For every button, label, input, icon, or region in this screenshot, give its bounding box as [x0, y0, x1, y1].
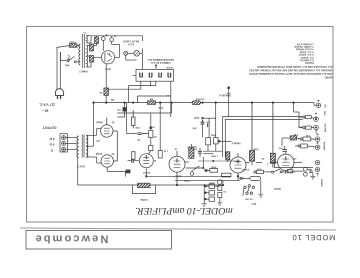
svg-text:PILOT LIGHT: PILOT LIGHT — [123, 39, 140, 42]
svg-text:20MF: 20MF — [208, 182, 214, 185]
svg-text:T-2 OUT.TRANS: T-2 OUT.TRANS — [296, 48, 314, 51]
svg-text:AC: AC — [324, 104, 327, 108]
svg-text:+250 V: +250 V — [219, 94, 228, 97]
svg-text:L-CHOKE 8 HY.: L-CHOKE 8 HY. — [296, 42, 314, 45]
svg-text:HEATER WIRING ALL: HEATER WIRING ALL — [147, 58, 174, 61]
svg-text:10W: 10W — [158, 106, 164, 109]
svg-text:OUT.T: OUT.T — [77, 164, 85, 167]
svg-text:FUSE: FUSE — [140, 198, 147, 201]
svg-text:.005: .005 — [278, 147, 283, 150]
svg-text:12AX7: 12AX7 — [174, 175, 182, 178]
svg-text:12AX7: 12AX7 — [241, 168, 249, 171]
svg-text:GUITAR: GUITAR — [324, 124, 327, 133]
svg-text:220K: 220K — [149, 126, 155, 129]
svg-text:V-1,2 : 6AQ5: V-1,2 : 6AQ5 — [299, 50, 314, 53]
svg-text:68K: 68K — [298, 126, 303, 129]
svg-text:1K: 1K — [99, 91, 102, 94]
svg-text:1 M: 1 M — [294, 133, 298, 136]
svg-text:T-1 PWR. TRANS.: T-1 PWR. TRANS. — [294, 45, 314, 48]
svg-text:S-1 SWITCH: S-1 SWITCH — [300, 59, 314, 62]
svg-text:100K: 100K — [211, 166, 217, 169]
svg-text:TUBES 6.3V A.C.: TUBES 6.3V A.C. — [150, 61, 171, 64]
svg-text:6AQ5: 6AQ5 — [95, 152, 102, 155]
svg-text:SW.: SW. — [64, 64, 69, 67]
svg-text:MODEL 10: MODEL 10 — [292, 233, 336, 242]
svg-text:RADIO: RADIO — [320, 179, 323, 187]
svg-text:47K: 47K — [257, 167, 262, 170]
svg-text:1 M: 1 M — [164, 150, 168, 153]
svg-text:AC SW: AC SW — [244, 198, 252, 201]
svg-text:60 ~: 60 ~ — [42, 109, 49, 113]
svg-text:8 Ω: 8 Ω — [49, 137, 55, 141]
svg-text:12AX7: 12AX7 — [142, 171, 150, 174]
svg-text:6AQ5: 6AQ5 — [96, 120, 103, 123]
svg-text:Newcombe: Newcombe — [33, 232, 108, 244]
svg-text:V-3,4 : 12AX7: V-3,4 : 12AX7 — [298, 53, 314, 56]
svg-text:SPKR: SPKR — [274, 187, 281, 190]
svg-text:117 V.A.C.: 117 V.A.C. — [39, 103, 55, 107]
svg-text:22K: 22K — [135, 126, 140, 129]
svg-text:CATH: CATH — [184, 179, 191, 182]
svg-text:AND ALL RESISTORS ONE-HALF WAT: AND ALL RESISTORS ONE-HALF WATT UNLESS O… — [249, 72, 332, 75]
svg-text:1 M: 1 M — [306, 134, 310, 137]
svg-text:mODEL-10 amPLiFiER.: mODEL-10 amPLiFiER. — [135, 205, 233, 216]
svg-text:P-P: P-P — [96, 139, 100, 142]
svg-text:TREBLE: TREBLE — [231, 141, 241, 144]
svg-text:GROUND. ALL CONDENSER VALUES A: GROUND. ALL CONDENSER VALUES ARE 600 VOL… — [249, 69, 333, 72]
svg-text:PHONO: PHONO — [323, 142, 326, 151]
svg-text:EXT: EXT — [251, 202, 256, 205]
svg-text:MIC: MIC — [323, 111, 326, 116]
svg-text:NOTE: NOTE — [166, 66, 173, 69]
svg-text:500K: 500K — [193, 116, 199, 119]
svg-text:PWR.T: PWR.T — [79, 70, 88, 73]
svg-text:47K: 47K — [292, 157, 297, 160]
svg-text:1K: 1K — [153, 159, 156, 162]
svg-text:.005: .005 — [192, 127, 197, 130]
svg-text:SUPPLY: SUPPLY — [187, 145, 197, 148]
svg-text:470K: 470K — [253, 148, 259, 151]
svg-text:5Y3: 5Y3 — [105, 67, 111, 71]
svg-text:OUTPUT: OUTPUT — [42, 126, 57, 130]
svg-text:4 Ω: 4 Ω — [49, 143, 55, 147]
svg-text:LOUD: LOUD — [211, 155, 218, 158]
svg-text:NOTE:: NOTE: — [324, 76, 332, 79]
svg-text:V-5 : 5Y3GT: V-5 : 5Y3GT — [300, 56, 314, 59]
svg-text:PARTS: PARTS — [305, 61, 314, 64]
svg-text:FUSE: FUSE — [69, 41, 76, 44]
svg-text:ALL VOLTAGES ARE D.C. TAKEN WI: ALL VOLTAGES ARE D.C. TAKEN WITH VTVM AN… — [257, 65, 333, 68]
svg-text:6V: 6V — [241, 177, 244, 180]
svg-text:CHOKE: CHOKE — [195, 98, 204, 101]
svg-text:250K: 250K — [210, 134, 216, 137]
svg-text:6.3 V: 6.3 V — [128, 42, 134, 45]
